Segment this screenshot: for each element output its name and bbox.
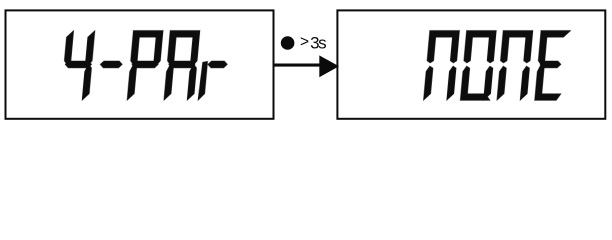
7-seg character "r" <box>198 61 228 100</box>
arrow head <box>319 55 339 77</box>
arrow shaft <box>274 64 322 67</box>
7-seg character "N" <box>497 31 533 101</box>
svg-text:>: > <box>300 34 309 51</box>
7-seg character "O" <box>460 31 496 101</box>
7-seg character "P" <box>127 31 163 101</box>
button symbol (filled circle) <box>281 36 295 50</box>
7-seg character "A" <box>164 31 200 101</box>
7-seg character "N" <box>423 31 459 101</box>
7-seg character "4" <box>61 31 95 101</box>
left display panel frame <box>6 10 274 118</box>
right display panel frame <box>337 10 605 118</box>
svg-text:3s: 3s <box>310 34 326 53</box>
7-seg character "-" <box>100 61 123 68</box>
7-seg character "E" <box>535 31 571 101</box>
